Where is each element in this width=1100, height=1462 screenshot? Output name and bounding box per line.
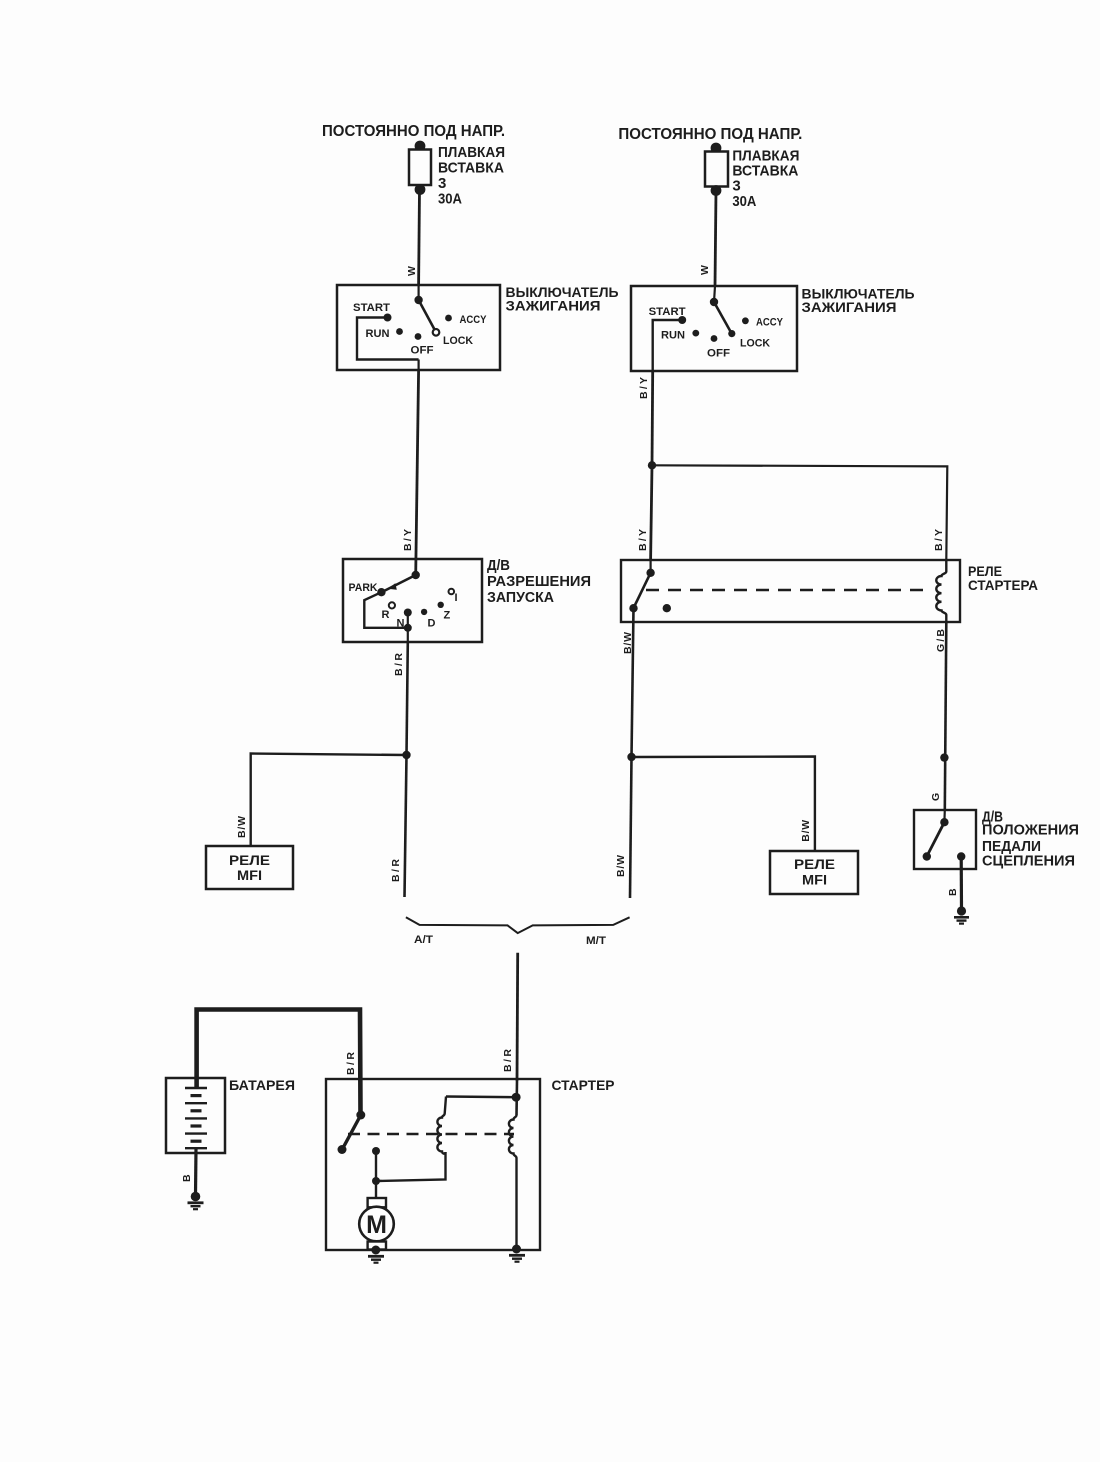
wire junction to MFI relay (right), label B/W (632, 757, 815, 852)
svg-text:MFI: MFI (237, 868, 262, 883)
wire junction to MFI relay (left), label B/W (236, 754, 407, 847)
svg-text:B/R: B/R (502, 1049, 514, 1072)
junction node M/T branch upper (648, 461, 656, 469)
svg-text:B/Y: B/Y (402, 529, 414, 551)
wire battery to ground, label B (181, 1148, 196, 1195)
svg-text:30А: 30А (438, 191, 462, 208)
svg-text:MFI: MFI (802, 873, 827, 888)
svg-text:РАЗРЕШЕНИЯ: РАЗРЕШЕНИЯ (487, 574, 591, 590)
wire clutch switch to ground, label B (947, 857, 962, 911)
ground (starter motor) (368, 1246, 384, 1263)
svg-text:M/T: M/T (586, 935, 606, 947)
battery box (166, 1077, 295, 1153)
junction node M/T branch lower (627, 753, 635, 761)
svg-text:Z: Z (444, 610, 451, 622)
svg-text:ЗАЖИГАНИЯ: ЗАЖИГАНИЯ (802, 299, 897, 315)
svg-text:B: B (181, 1174, 193, 1182)
starter solenoid contact switch (338, 1111, 366, 1155)
svg-text:START: START (353, 302, 390, 314)
svg-text:N: N (397, 618, 405, 630)
junction node starter B/R (512, 1093, 521, 1102)
svg-text:БАТАРЕЯ: БАТАРЕЯ (229, 1077, 295, 1093)
wire junction down to brace (A/T), label B/R (390, 755, 407, 897)
battery feed wire (thick), label B/R (197, 1010, 361, 1116)
svg-text:30А: 30А (732, 193, 756, 210)
svg-text:B/Y: B/Y (638, 377, 650, 399)
wire fuse to ignition switch (right), label W (699, 191, 716, 287)
svg-text:RUN: RUN (366, 328, 390, 340)
wire ignition to park switch, label B/Y (402, 370, 419, 575)
ground (battery) (188, 1192, 204, 1210)
wire brace to starter box, label B/R (502, 953, 518, 1081)
svg-text:B/Y: B/Y (637, 529, 649, 551)
junction node A/T branch (402, 751, 410, 759)
svg-text:СТАРТЕР: СТАРТЕР (552, 1077, 615, 1093)
svg-text:G/B: G/B (935, 629, 947, 652)
wire coil top to junction (446, 1095, 516, 1098)
svg-text:ВСТАВКА: ВСТАВКА (438, 160, 504, 177)
svg-text:D: D (428, 618, 436, 630)
wire junction down to brace (M/T), label B/W (615, 757, 632, 898)
svg-text:ПОСТОЯННО ПОД НАПР.: ПОСТОЯННО ПОД НАПР. (618, 126, 802, 143)
svg-text:A/T: A/T (414, 934, 433, 946)
svg-text:OFF: OFF (411, 345, 434, 357)
starter box (326, 1077, 615, 1250)
clutch pedal position switch (914, 810, 1079, 870)
svg-text:Д/В: Д/В (487, 558, 510, 574)
wire ignition (right) down, label B/Y (638, 371, 653, 465)
dashed link starter solenoid (348, 1133, 514, 1135)
ignition switch (left) (337, 284, 619, 370)
svg-text:3: 3 (732, 178, 740, 195)
svg-text:РЕЛЕ: РЕЛЕ (229, 853, 270, 868)
MFI relay box (right) (770, 851, 858, 894)
wire junction to relay coil (right side), label B/Y (652, 465, 947, 560)
brace A/T - M/T merge (406, 917, 630, 947)
svg-text:B/R: B/R (390, 859, 402, 882)
svg-text:W: W (699, 265, 711, 275)
ground (starter solenoid) (509, 1245, 525, 1262)
battery cell plates (185, 1088, 207, 1148)
wire relay coil down to clutch switch, labels G/B and G (930, 622, 949, 810)
svg-text:ПОЛОЖЕНИЯ: ПОЛОЖЕНИЯ (982, 823, 1079, 839)
starter motor M (359, 1181, 394, 1250)
svg-text:B/W: B/W (622, 632, 634, 654)
svg-text:ПОСТОЯННО ПОД НАПР.: ПОСТОЯННО ПОД НАПР. (322, 123, 505, 140)
svg-text:W: W (406, 266, 418, 276)
wire park switch down to junction, label B/R (393, 642, 408, 755)
svg-text:ПЛАВКАЯ: ПЛАВКАЯ (438, 144, 505, 161)
svg-text:B/W: B/W (615, 855, 627, 877)
svg-text:START: START (649, 306, 686, 318)
svg-text:M: M (366, 1211, 387, 1239)
starter relay box (621, 560, 1038, 622)
svg-text:B/W: B/W (236, 816, 248, 838)
svg-text:B/R: B/R (393, 653, 405, 676)
starter contact to motor node (372, 1147, 446, 1185)
svg-text:G: G (930, 793, 942, 801)
wire junction down to relay switch, label B/Y (637, 465, 652, 560)
svg-text:PARK: PARK (349, 582, 378, 594)
park/neutral position switch (343, 558, 591, 642)
MFI relay box (left) (206, 846, 293, 889)
svg-text:I: I (455, 592, 458, 604)
svg-text:ACCY: ACCY (460, 314, 488, 326)
starter pull-in coil (left) (437, 1097, 446, 1154)
svg-text:B/R: B/R (345, 1052, 357, 1075)
wire fuse to ignition switch (left), label W (406, 190, 420, 286)
svg-text:RUN: RUN (661, 330, 685, 342)
svg-text:OFF: OFF (707, 348, 730, 360)
svg-text:ACCY: ACCY (756, 317, 784, 329)
fusible link 3 30A (right) (705, 143, 799, 210)
fusible link 3 30A (left) (409, 141, 505, 208)
svg-text:LOCK: LOCK (443, 335, 473, 347)
svg-text:СТАРТЕРА: СТАРТЕРА (968, 577, 1038, 593)
svg-text:R: R (382, 609, 390, 621)
svg-text:РЕЛЕ: РЕЛЕ (794, 857, 835, 872)
svg-text:LOCK: LOCK (740, 338, 770, 350)
svg-text:B/W: B/W (800, 820, 812, 842)
svg-text:СЦЕПЛЕНИЯ: СЦЕПЛЕНИЯ (982, 854, 1075, 870)
starter hold-in coil (right) on B/R wire (509, 1081, 517, 1248)
ground (clutch switch) (954, 906, 969, 923)
svg-text:ЗАПУСКА: ЗАПУСКА (487, 590, 555, 606)
svg-text:B/Y: B/Y (933, 529, 945, 551)
ignition switch (right) (631, 286, 915, 372)
svg-text:ВСТАВКА: ВСТАВКА (732, 163, 798, 180)
svg-text:B: B (947, 888, 959, 896)
svg-text:ЗАЖИГАНИЯ: ЗАЖИГАНИЯ (506, 298, 601, 314)
wire relay switch down to junction, label B/W (622, 608, 634, 757)
svg-text:3: 3 (438, 175, 446, 192)
